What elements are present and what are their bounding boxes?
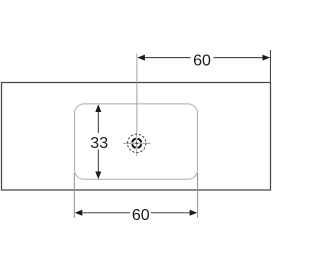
countertop outline [2,83,271,191]
arrow right (bottom dim) [190,210,198,216]
arrow left (top dim) [137,55,145,61]
arrow right (top dim) [263,55,271,61]
arrow down (33 dim) [95,172,101,180]
tap hole symbol [123,131,151,157]
right extension line [269,50,271,82]
dimension 33 vertical [97,112,99,173]
bold ring arcs [132,139,141,148]
center dot [136,142,138,144]
svg-text:60: 60 [193,52,211,69]
arrow left (bottom dim) [75,210,83,216]
bolt dashed circle [128,134,146,152]
right extension line (bottom dim) [197,173,199,218]
svg-text:33: 33 [90,135,108,152]
crosshair horizontal [123,142,151,144]
dimension 60 bottom [82,212,190,214]
svg-text:60: 60 [132,207,150,224]
dimension 60 top [144,50,270,82]
arrow up (33 dim) [95,104,101,112]
centerline (tap axis) [136,54,138,131]
basin cutout outline [75,104,198,179]
left extension line (bottom dim) [73,173,75,218]
crosshair vertical [136,131,138,157]
